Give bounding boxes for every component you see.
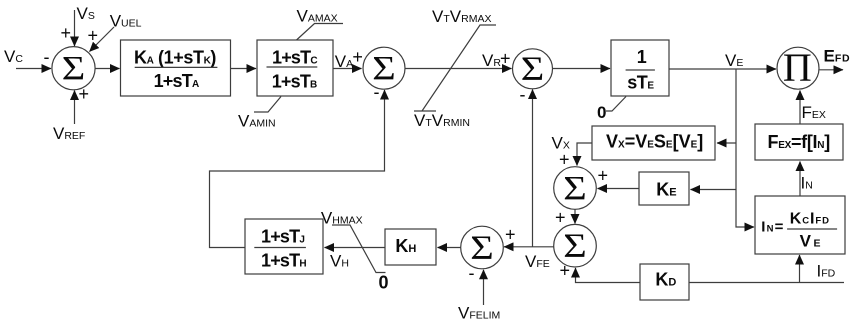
wire Σ4 to Σ5	[574, 210, 576, 224]
multiplier Π	[777, 47, 819, 89]
svg-text:IN: IN	[801, 174, 813, 193]
svg-text:+: +	[352, 47, 363, 67]
svg-text:Σ: Σ	[62, 50, 86, 87]
svg-text:EFD: EFD	[824, 47, 851, 66]
wire VFE Σ5 output to Σ6	[504, 246, 554, 248]
svg-text:VC: VC	[4, 47, 23, 66]
wire Σ1 to block KA	[96, 68, 120, 70]
svg-text:KCIFD: KCIFD	[790, 211, 830, 228]
svg-text:Σ: Σ	[563, 170, 587, 207]
svg-text:+: +	[555, 208, 566, 228]
svg-text:Σ: Σ	[521, 51, 545, 88]
svg-text:+: +	[61, 23, 72, 43]
svg-text:+: +	[560, 261, 571, 281]
wire VX block to Σ4	[577, 143, 592, 152]
wire 1/sTE to Π (VE)	[669, 68, 776, 70]
summing junction Σ3	[513, 49, 553, 89]
svg-text:KA (1+sTK): KA (1+sTK)	[134, 48, 216, 68]
svg-text:0: 0	[379, 273, 389, 293]
limiter VHMAX / 0	[321, 209, 389, 293]
svg-text:VA: VA	[335, 52, 353, 71]
svg-text:sTE: sTE	[627, 73, 654, 93]
svg-text:+: +	[500, 49, 511, 69]
block 1/sTE	[611, 40, 669, 96]
svg-text:-: -	[520, 84, 526, 104]
limiter labels VTVRMAX / VTVRMIN	[414, 7, 496, 130]
svg-text:VH: VH	[330, 252, 349, 271]
limit label 0 under 1/sTE	[597, 97, 626, 123]
wire branch VE to VX block	[717, 142, 736, 144]
summing junction Σ4	[554, 167, 597, 210]
svg-text:1+sTC: 1+sTC	[272, 48, 317, 68]
svg-text:VR: VR	[482, 51, 501, 70]
svg-text:VTVRMAX: VTVRMAX	[432, 7, 491, 26]
block KD	[640, 264, 689, 300]
svg-text:-: -	[374, 82, 380, 102]
svg-text:Σ: Σ	[470, 230, 494, 267]
svg-text:VE: VE	[800, 231, 821, 250]
svg-text:VAMAX: VAMAX	[297, 7, 338, 26]
summing junction Σ6	[461, 226, 504, 269]
summing junction Σ5	[554, 224, 597, 267]
wire KA to block TC/TB	[231, 68, 257, 70]
wire KE to Σ4	[598, 188, 640, 190]
block KA (1+sTK)/(1+sTA)	[121, 40, 231, 96]
svg-text:VUEL: VUEL	[110, 11, 142, 30]
wire VC to Σ1	[16, 68, 51, 70]
svg-text:Π: Π	[783, 45, 812, 90]
block KH	[385, 229, 436, 265]
limit label VAMIN	[238, 97, 281, 131]
svg-text:1: 1	[637, 47, 647, 67]
svg-text:-: -	[44, 47, 50, 67]
wire IN to FEX block	[799, 162, 801, 197]
wire feedback TJ/TH to Σ2	[210, 100, 385, 248]
wire VFE feedback up to Σ3	[532, 100, 534, 247]
svg-text:VE: VE	[725, 51, 743, 70]
wire VE drop line	[736, 69, 745, 227]
svg-text:IFD: IFD	[817, 262, 836, 281]
wire VFELIM into Σ6	[483, 270, 485, 305]
svg-text:+: +	[598, 166, 609, 186]
svg-text:VAMIN: VAMIN	[238, 112, 276, 131]
wire KH to TJ/TH block	[325, 247, 386, 249]
svg-text:KD: KD	[655, 270, 676, 290]
block KE	[639, 172, 689, 205]
wire VREF into Σ1	[74, 91, 76, 125]
summing junction Σ2	[363, 47, 405, 89]
svg-text:KH: KH	[395, 236, 416, 256]
block VX=VESE[VE]	[592, 126, 715, 160]
summing junction Σ1	[52, 47, 95, 90]
svg-text:VFE: VFE	[525, 252, 550, 271]
svg-text:VFELIM: VFELIM	[458, 304, 500, 323]
wire Σ3 to block 1/sTE	[553, 68, 611, 70]
wire Σ2 to Σ3 (VR)	[405, 68, 512, 70]
block (1+sTJ)/(1+sTH)	[245, 219, 323, 274]
svg-text:1+sTA: 1+sTA	[154, 71, 199, 91]
svg-text:+: +	[88, 26, 99, 46]
wire FEX to Π	[799, 91, 801, 125]
svg-text:VREF: VREF	[53, 124, 85, 143]
wire Π to EFD	[820, 69, 844, 71]
svg-text:+: +	[505, 225, 516, 245]
svg-text:+: +	[559, 150, 570, 170]
svg-text:FEX: FEX	[802, 103, 826, 122]
block (1+sTC)/(1+sTB)	[257, 40, 333, 96]
wire VUEL into Σ1	[90, 27, 115, 52]
svg-text:VTVRMIN: VTVRMIN	[414, 111, 470, 130]
svg-text:VX=VESE[VE]: VX=VESE[VE]	[606, 132, 703, 152]
svg-text:0: 0	[597, 103, 606, 122]
svg-text:IN=: IN=	[761, 219, 784, 236]
svg-text:Σ: Σ	[563, 228, 587, 265]
wire KD to Σ5	[576, 278, 641, 283]
wire IFD branch up to IN block	[799, 266, 801, 283]
block IN = KC IFD / VE	[755, 196, 845, 254]
limit label VAMAX	[297, 7, 344, 40]
svg-text:+: +	[79, 84, 90, 104]
wire Σ6 to KH	[438, 247, 461, 249]
wire branch VE to KE block	[691, 189, 737, 191]
svg-text:FEX=f[IN]: FEX=f[IN]	[768, 132, 830, 152]
node VA wire TC/TB to Σ2	[333, 68, 362, 70]
svg-text:VS: VS	[77, 4, 95, 23]
wire IFD input	[689, 282, 844, 284]
block FEX=f[IN]	[755, 124, 843, 160]
svg-text:1+sTB: 1+sTB	[272, 71, 317, 91]
svg-text:1+sTH: 1+sTH	[261, 251, 306, 271]
wire VS into Σ1	[74, 10, 76, 46]
svg-text:-: -	[469, 263, 475, 283]
svg-text:KE: KE	[656, 179, 676, 199]
svg-text:1+sTJ: 1+sTJ	[261, 226, 304, 246]
